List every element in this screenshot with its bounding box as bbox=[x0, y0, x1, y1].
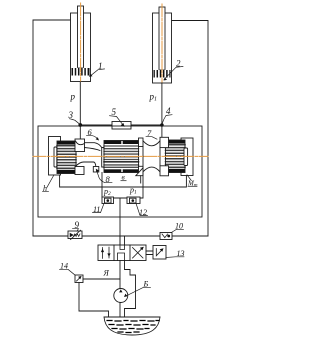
wire valve bottom port left bbox=[119, 261, 121, 289]
wire right frame loop bbox=[172, 21, 209, 237]
wire pipe to right fork bbox=[161, 125, 163, 137]
bearing bracket right bbox=[181, 138, 193, 176]
gear drum right bbox=[166, 140, 186, 173]
leader line 7 bbox=[146, 137, 157, 140]
svg-text:2: 2 bbox=[176, 59, 181, 69]
cylinder C1 body bbox=[71, 13, 91, 82]
svg-text:Б: Б bbox=[143, 280, 149, 289]
clutch fork 7 upper jaw bbox=[139, 137, 169, 166]
svg-text:10: 10 bbox=[175, 222, 183, 231]
clutch feed housing 8 bbox=[102, 173, 143, 199]
leader line 12 bbox=[136, 204, 147, 215]
leader line 6 bbox=[87, 136, 99, 140]
leader line 2 bbox=[164, 66, 183, 79]
leader line Mt bbox=[187, 175, 197, 187]
leader line 14 bbox=[60, 269, 76, 275]
orange axis cylinder 1 bbox=[80, 3, 82, 81]
cylinder C1 rod bbox=[78, 6, 84, 68]
svg-text:4: 4 bbox=[166, 106, 171, 116]
wire top manifold line bbox=[80, 124, 162, 126]
throttle 9 body bbox=[68, 230, 82, 239]
tank reservoir bbox=[104, 317, 160, 335]
svg-text:3: 3 bbox=[68, 110, 74, 120]
leader line b pump bbox=[126, 287, 151, 296]
wire pipe to left fork bbox=[79, 125, 81, 139]
wire check valve 14 to drain bbox=[83, 278, 120, 280]
leader line 10 bbox=[171, 229, 184, 232]
clutch fork 6 upper jaw bbox=[75, 139, 102, 152]
gear drum left bbox=[57, 141, 76, 174]
leader line 13 bbox=[166, 256, 184, 259]
wire output shaft bbox=[60, 175, 187, 187]
svg-text:5: 5 bbox=[112, 107, 117, 117]
pressure sensor 12 bbox=[127, 197, 140, 204]
svg-text:12: 12 bbox=[139, 208, 147, 217]
leader line 3 bbox=[70, 119, 80, 125]
valve section cross right bbox=[133, 248, 144, 259]
wire check valve 14 down to tank bbox=[79, 283, 109, 323]
bearing bracket left bbox=[49, 137, 61, 176]
cylinder C2 body bbox=[153, 13, 172, 83]
wire left frame loop bbox=[33, 20, 71, 236]
check valve 10 body bbox=[160, 233, 172, 240]
wire valve top port right stub bbox=[124, 236, 126, 245]
cylinder C2 piston bbox=[154, 70, 171, 78]
valve middle section ports bbox=[120, 245, 125, 250]
leader line 4 bbox=[162, 115, 172, 123]
clutch fork 7 lower jaw bbox=[136, 166, 169, 183]
valve section arrows left bbox=[102, 248, 104, 259]
leader line 9 bbox=[73, 229, 79, 232]
orange center axis horizontal bbox=[33, 155, 208, 157]
node junction 3 bbox=[78, 123, 82, 127]
drum center left tab bbox=[102, 148, 104, 168]
variable throttle 13 bbox=[153, 246, 166, 260]
pump direction triangle bbox=[119, 289, 122, 292]
clutch fork 6 lower jaw bbox=[75, 162, 99, 175]
gearbox outer housing box bbox=[38, 126, 202, 217]
svg-text:p: p bbox=[70, 92, 76, 102]
leader line 8 bbox=[97, 171, 112, 182]
wire pump outlet to tank bbox=[119, 303, 121, 323]
svg-text:h: h bbox=[43, 184, 47, 193]
svg-text:14: 14 bbox=[60, 262, 68, 271]
leader line 5 bbox=[110, 116, 124, 126]
valve 5 body bbox=[112, 122, 131, 130]
svg-text:11: 11 bbox=[93, 205, 100, 214]
leader line 1 bbox=[91, 69, 105, 76]
svg-text:9: 9 bbox=[75, 220, 80, 230]
wire valve top port left bbox=[119, 236, 121, 245]
directional valve block bbox=[98, 245, 146, 261]
wire bypass staircase bbox=[125, 261, 136, 322]
svg-text:1: 1 bbox=[98, 61, 103, 71]
svg-text:Я: Я bbox=[103, 269, 110, 278]
pressure plate right bbox=[184, 148, 188, 166]
pump B circle bbox=[114, 289, 128, 303]
pressure plate left bbox=[54, 147, 57, 167]
svg-text:13: 13 bbox=[177, 249, 185, 258]
gear drum center bbox=[104, 140, 139, 172]
node junction 4 bbox=[160, 123, 164, 127]
wire bottom return line bbox=[33, 235, 208, 237]
cylinder C1 piston bbox=[72, 68, 90, 76]
cylinder C2 rod bbox=[159, 7, 165, 70]
wire pipe p from cylinder 1 bbox=[79, 82, 81, 126]
leader line h bbox=[43, 175, 55, 192]
pressure sensor 11 bbox=[102, 197, 114, 204]
wire pipe p1 from cylinder 2 bbox=[161, 83, 163, 125]
leader line 11 bbox=[93, 204, 104, 213]
check valve 14 body bbox=[75, 275, 83, 283]
wire pilot lines to throttle 13 bbox=[146, 251, 153, 255]
orange axis cylinder 2 bbox=[161, 4, 163, 82]
wire sensor line down to valve bbox=[119, 198, 121, 245]
